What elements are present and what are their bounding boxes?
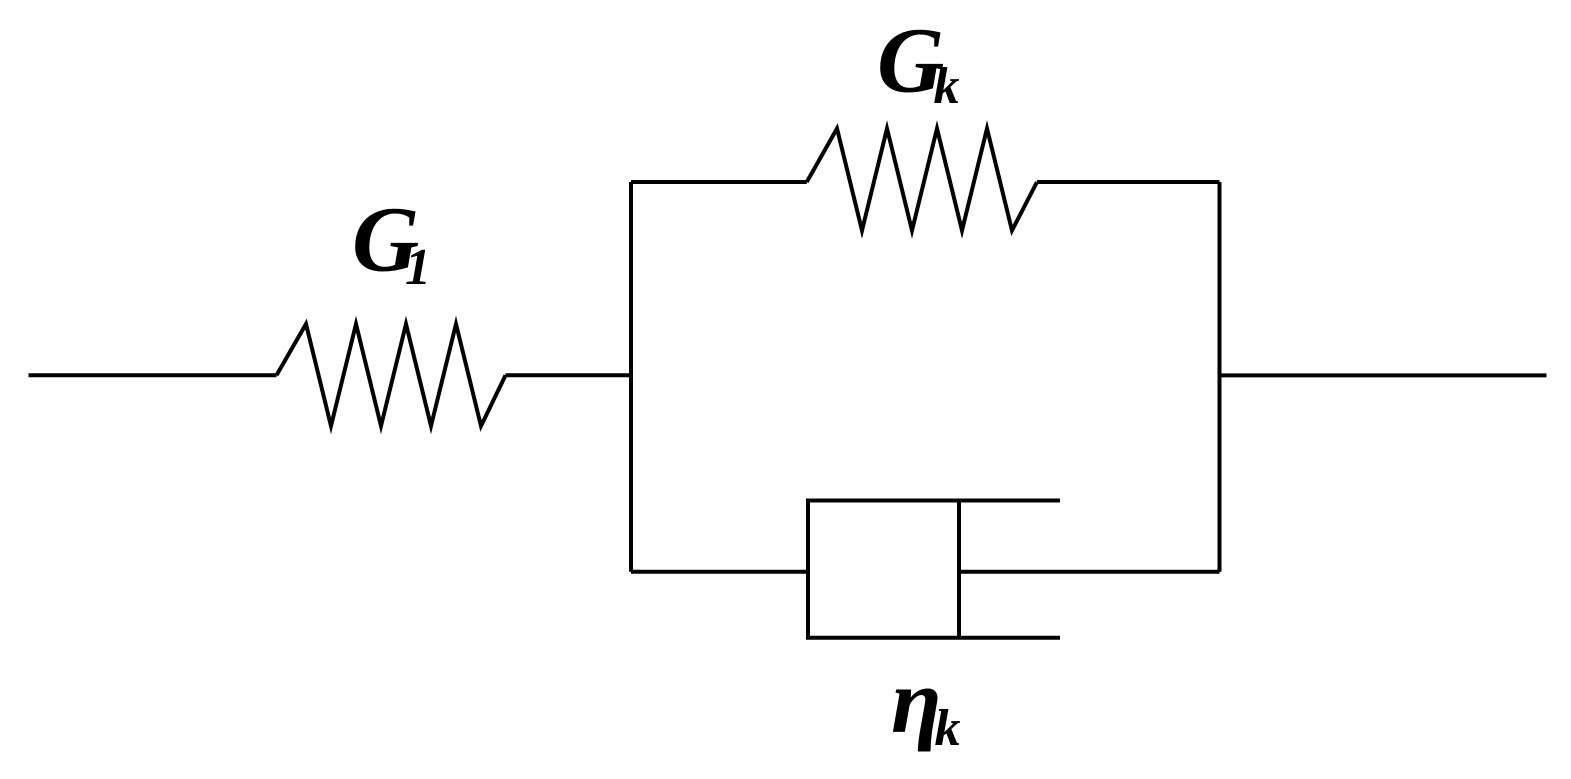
wire: output lead xyxy=(1220,373,1547,377)
wire: bottom-left horizontal xyxy=(631,570,808,574)
dashpot ηk piston xyxy=(957,501,961,638)
wire: left vertical of parallel branch xyxy=(629,182,633,572)
svg-text:1: 1 xyxy=(405,239,431,296)
svg-text:k: k xyxy=(935,700,961,757)
wire: right vertical of parallel branch xyxy=(1218,182,1222,572)
dashpot ηk cylinder xyxy=(808,501,1060,638)
dashpot ηk piston rod xyxy=(959,570,1220,574)
wire: spring G1 to node A xyxy=(506,373,632,377)
wire: top-left horizontal xyxy=(631,180,807,184)
wire: input lead xyxy=(29,373,277,377)
spring Gk xyxy=(807,129,1037,231)
spring G1 xyxy=(277,324,506,426)
wire: top-right horizontal xyxy=(1037,180,1220,184)
svg-text:k: k xyxy=(934,58,960,115)
